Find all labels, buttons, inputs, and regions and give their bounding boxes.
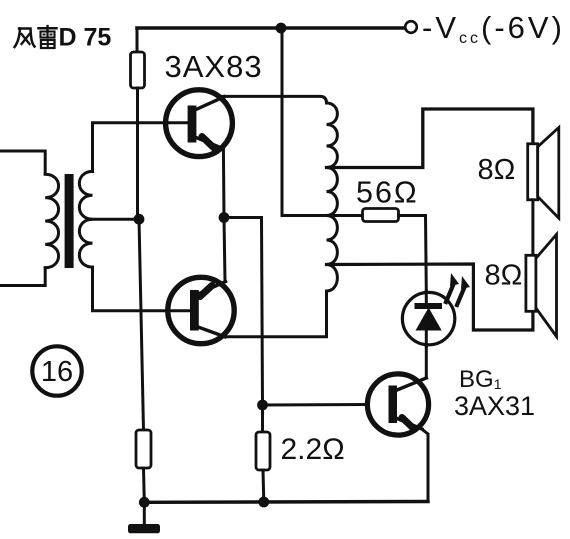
wire left rail lower xyxy=(139,219,144,430)
svg-text:56Ω: 56Ω xyxy=(356,176,419,210)
wire 56ohm to LED xyxy=(399,216,427,292)
transformer T1 primary left wire bottom xyxy=(0,268,45,286)
wire between speakers xyxy=(531,200,534,256)
svg-text:-Vcc(-6V): -Vcc(-6V) xyxy=(422,10,565,47)
wire LED to BG1 collector xyxy=(425,346,428,378)
terminal -Vcc xyxy=(405,21,417,33)
figure number 16 xyxy=(32,346,81,395)
node bottom rail junction xyxy=(258,497,269,508)
ground xyxy=(128,524,160,533)
wire Q1 collector to output transformer top xyxy=(223,96,327,103)
wire secondary center tap xyxy=(93,218,139,221)
wire R3 to bottom rail xyxy=(262,470,266,502)
resistor R3 2.2ohm xyxy=(256,432,270,470)
resistor R1 xyxy=(131,52,145,88)
speaker LS1 xyxy=(528,128,559,219)
node BG1 base junction xyxy=(257,400,268,411)
svg-text:D 75: D 75 xyxy=(59,24,112,52)
wire left rail upper xyxy=(136,88,139,219)
node emitter junction xyxy=(219,212,230,223)
transistor Q1 3AX83 xyxy=(166,90,233,157)
wire secondary bottom to Q2 base xyxy=(93,267,191,311)
svg-text:3AX83: 3AX83 xyxy=(165,49,263,84)
speaker LS2 xyxy=(526,234,557,336)
resistor R2 xyxy=(136,430,151,468)
node -Vcc rail junction xyxy=(276,23,287,34)
wire R1 stub top xyxy=(136,28,139,52)
svg-text:BG1: BG1 xyxy=(459,366,502,393)
LED D1 xyxy=(402,291,454,346)
wire node to R3 xyxy=(261,405,264,432)
node ground junction xyxy=(139,497,150,508)
svg-text:16: 16 xyxy=(41,356,73,388)
transformer T1 primary winding xyxy=(45,174,58,268)
wire BG1 base xyxy=(263,403,368,407)
svg-text:8Ω: 8Ω xyxy=(478,154,516,186)
wire tap3 to speaker bottom xyxy=(327,264,533,330)
LED light arrows xyxy=(446,273,470,305)
wire Q2 collector to output transformer bottom xyxy=(222,291,327,337)
label 风雷D75 (chinese chars drawn) xyxy=(15,26,57,48)
wire R2 to ground node xyxy=(142,468,146,502)
transformer T1 primary left wire top xyxy=(0,151,45,174)
transformer T2 output winding xyxy=(327,103,338,291)
wire emitter node to R3 rail xyxy=(224,218,263,406)
wire Q1 emitter rail down to Q2 emitter xyxy=(223,147,225,282)
transistor Q3 BG1 3AX31 xyxy=(367,374,428,435)
wire top rail xyxy=(137,26,405,30)
wire bottom rail xyxy=(144,500,428,504)
wire ground stem xyxy=(143,502,146,524)
wire secondary top to Q1 base xyxy=(93,123,189,172)
transistor Q2 3AX83 xyxy=(168,277,234,343)
transformer T1 secondary winding xyxy=(79,171,92,267)
svg-text:2.2Ω: 2.2Ω xyxy=(281,433,345,466)
svg-text:3AX31: 3AX31 xyxy=(454,391,535,421)
wire tap2 (center) to -Vcc rail xyxy=(282,28,327,216)
resistor R4 56ohm xyxy=(363,209,399,222)
wire tap2 to 56ohm xyxy=(327,214,363,217)
transformer T1 core xyxy=(65,174,74,268)
node center tap junction xyxy=(134,214,145,225)
wire tap1 to speaker top xyxy=(327,109,533,168)
wire BG1 emitter to bottom rail xyxy=(421,429,428,502)
svg-text:8Ω: 8Ω xyxy=(485,260,523,292)
